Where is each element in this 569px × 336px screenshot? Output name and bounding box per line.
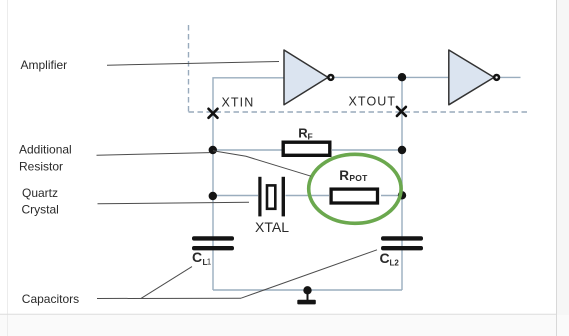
leader: Amplifier xyxy=(107,62,279,66)
svg-text:F: F xyxy=(308,131,313,141)
wire: crystal row middle xyxy=(286,195,330,197)
svg-text:Resistor: Resistor xyxy=(19,159,63,173)
leader: pointer to CL2 xyxy=(241,250,377,298)
svg-text:Capacitors: Capacitors xyxy=(22,292,79,306)
node XTIN (X pin mark) xyxy=(209,109,218,118)
wire: crystal row left xyxy=(213,195,258,197)
leader: pointer to CL1 xyxy=(141,267,192,299)
svg-text:L2: L2 xyxy=(390,258,400,267)
svg-text:C: C xyxy=(380,250,390,266)
svg-text:XTIN: XTIN xyxy=(222,95,255,109)
svg-text:Crystal: Crystal xyxy=(22,203,59,217)
wire: RF row left xyxy=(213,149,283,151)
wire: left vertical rail xyxy=(212,113,214,290)
leader: pointer to RPOT xyxy=(213,151,311,176)
junction: left RF node xyxy=(209,146,217,154)
svg-text:XTOUT: XTOUT xyxy=(349,95,397,109)
svg-text:Additional: Additional xyxy=(19,143,72,157)
leader: Quartz Crystal xyxy=(98,202,250,204)
junction: XTOUT top node xyxy=(398,73,406,81)
wire: crystal row right xyxy=(381,195,402,197)
svg-text:POT: POT xyxy=(349,173,368,183)
svg-text:1: 1 xyxy=(207,258,212,267)
leader: Additional Resistor xyxy=(97,153,210,156)
capacitor CL1 xyxy=(192,236,234,267)
resistor RF xyxy=(283,125,330,155)
svg-text:C: C xyxy=(192,249,202,265)
op-amp U2 (output buffer) xyxy=(449,50,499,105)
wire: XTIN L-wire into amplifier xyxy=(213,78,284,111)
junction: left crystal node xyxy=(209,192,217,200)
svg-text:R: R xyxy=(339,168,349,183)
wire: second buffer output xyxy=(500,76,521,78)
wire: RF row right xyxy=(332,149,402,151)
resistor RPOT xyxy=(331,168,377,203)
chip boundary (dashed) xyxy=(189,25,529,112)
svg-text:XTAL: XTAL xyxy=(255,219,289,235)
junction: right RF node xyxy=(398,146,406,154)
op-amp U1 (inverting amplifier) xyxy=(284,50,333,105)
node XTOUT (X pin mark) xyxy=(397,107,406,116)
crystal XTAL xyxy=(255,177,289,235)
green highlight ellipse around RPOT xyxy=(309,154,401,223)
svg-text:Amplifier: Amplifier xyxy=(21,58,68,72)
leader: Capacitors xyxy=(97,297,241,299)
wire: amplifier output to second buffer xyxy=(334,76,450,78)
ground xyxy=(297,286,316,304)
wire: bottom rail xyxy=(213,289,402,291)
junction: right crystal node xyxy=(398,191,406,199)
capacitor CL2 xyxy=(380,236,424,267)
svg-text:Quartz: Quartz xyxy=(22,186,58,200)
wire: right vertical rail xyxy=(401,77,403,290)
